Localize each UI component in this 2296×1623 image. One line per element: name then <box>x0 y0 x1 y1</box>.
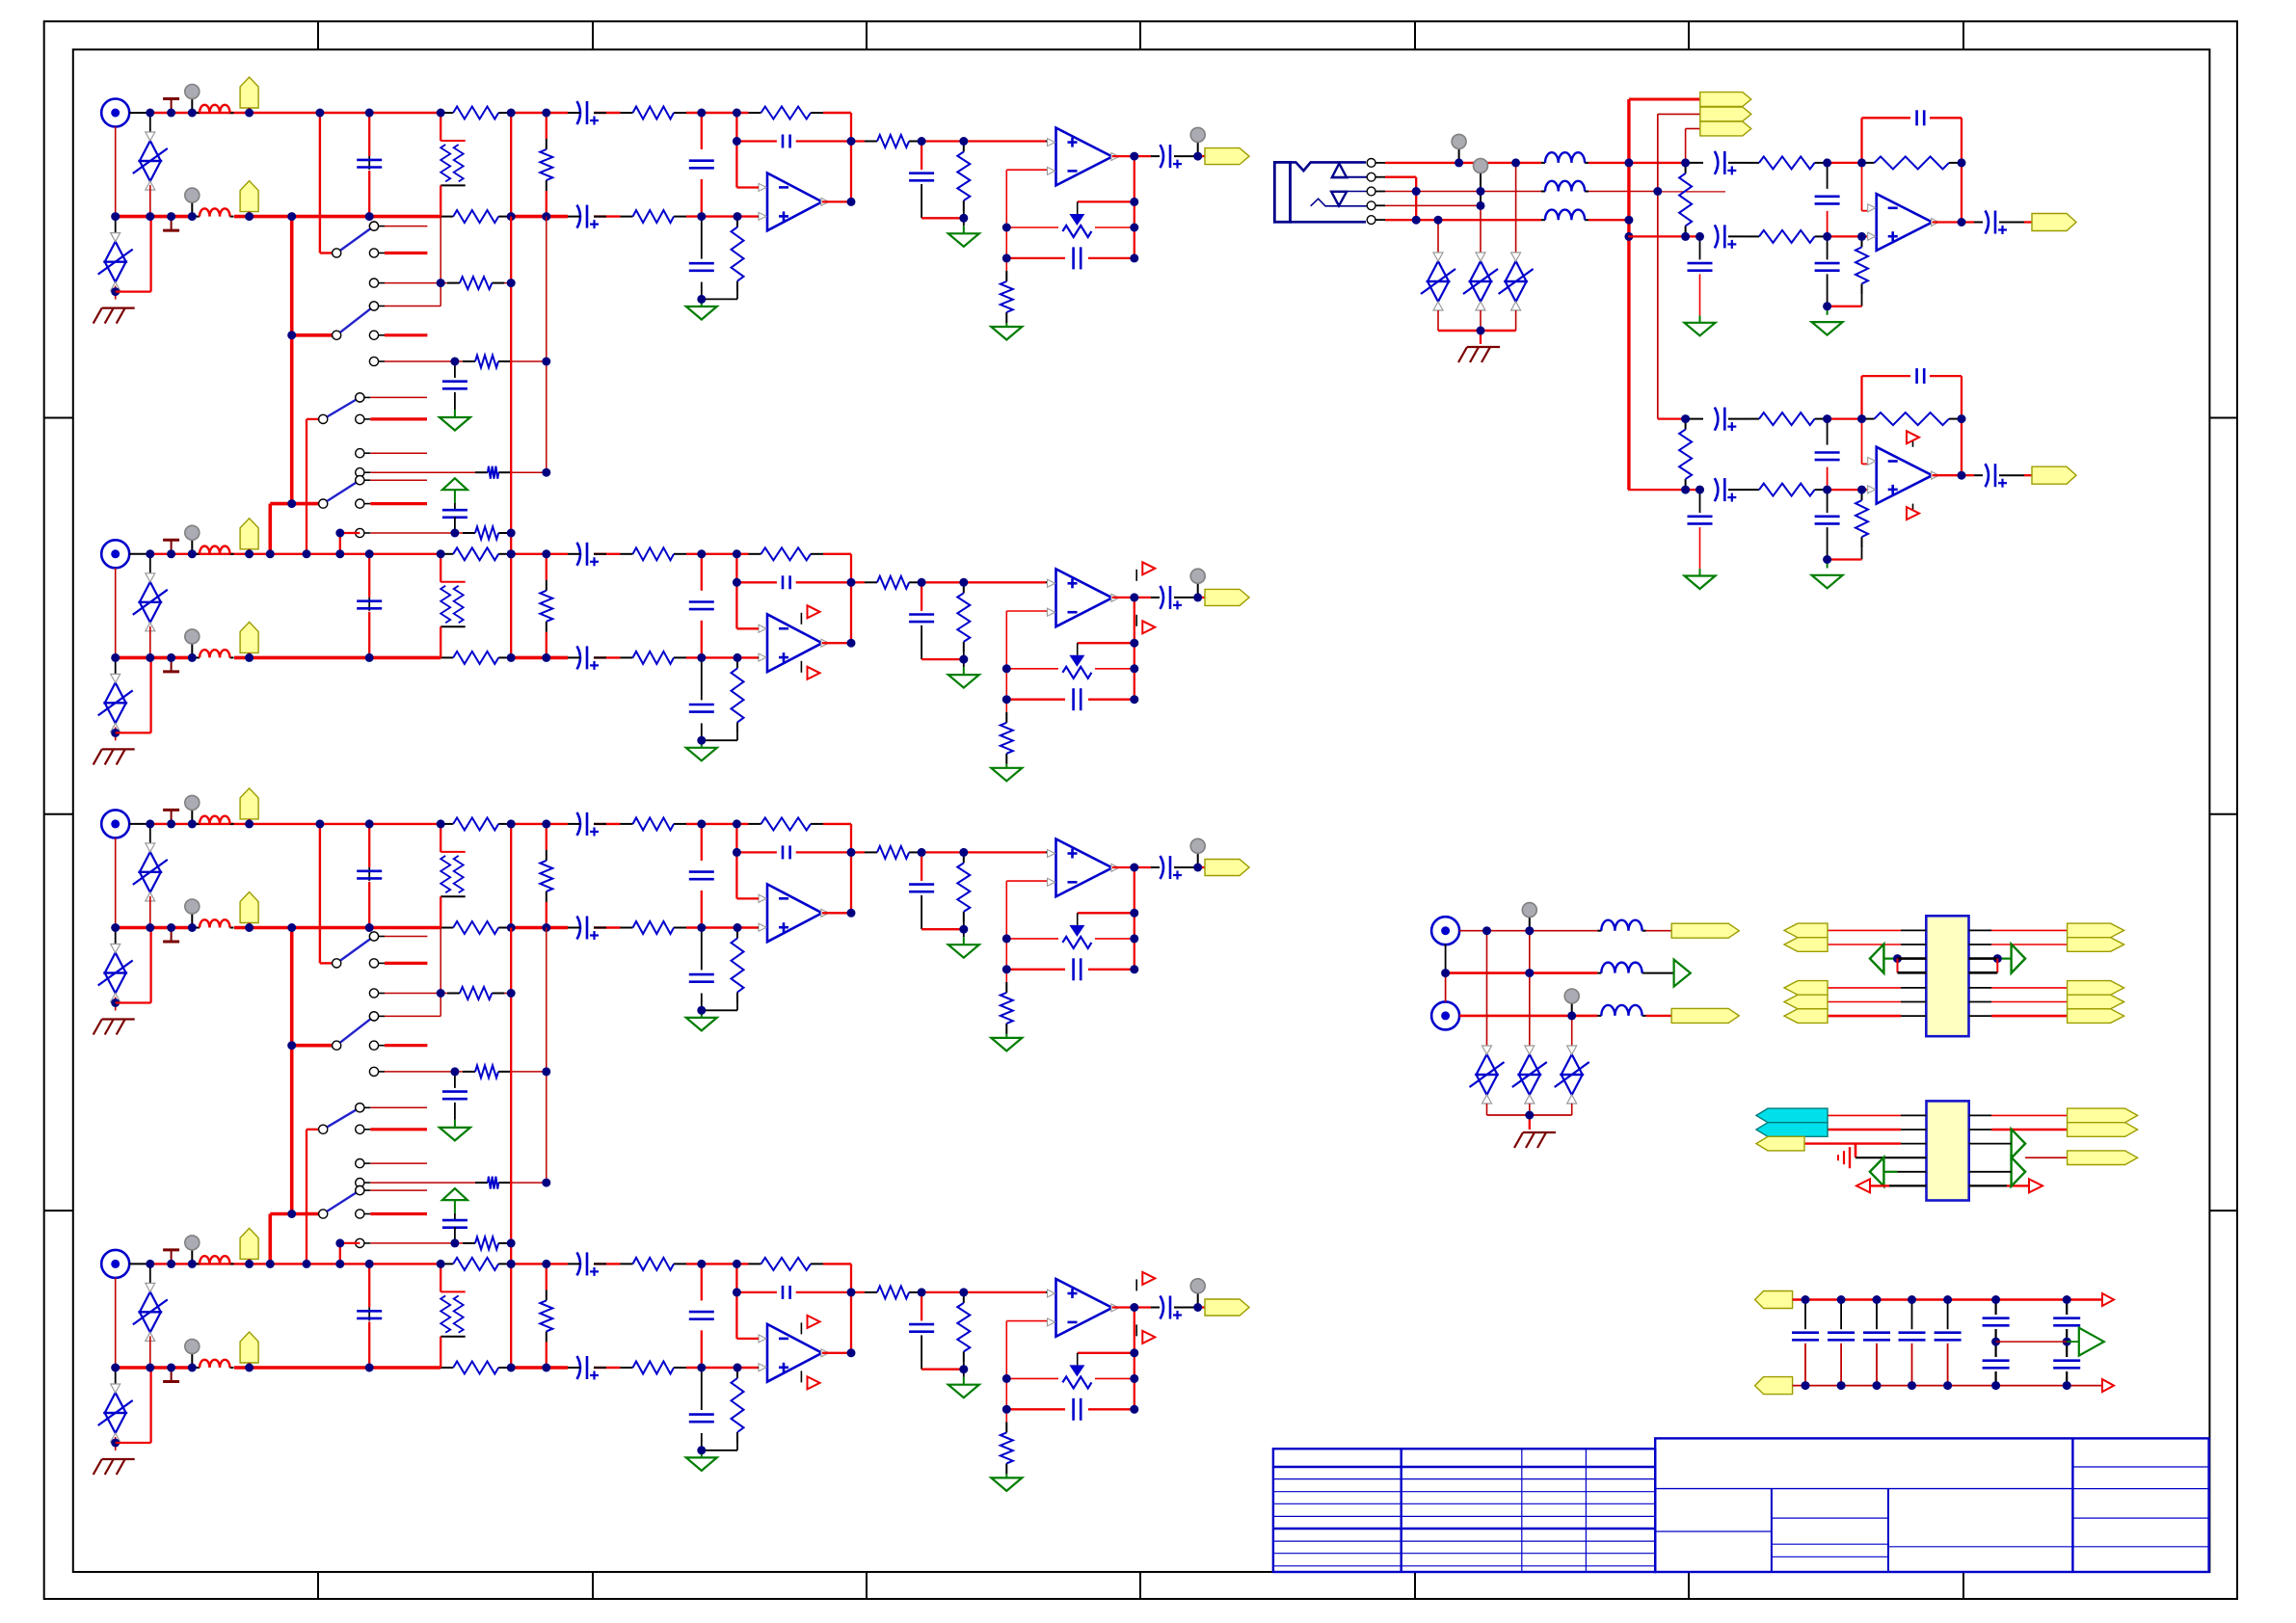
junction <box>733 1288 741 1296</box>
wire <box>1995 1329 1997 1357</box>
wire <box>454 1072 456 1088</box>
junction <box>1193 152 1202 161</box>
net flag FLAG4 <box>240 622 258 652</box>
junction <box>734 923 742 932</box>
tap TK5 <box>163 810 179 824</box>
wire <box>1151 866 1160 868</box>
wire <box>1078 912 1135 914</box>
net flag FLAG5 <box>240 788 258 819</box>
wire <box>116 1001 151 1003</box>
capacitor C3e <box>783 845 790 859</box>
test point TP8 <box>185 1340 200 1369</box>
wire pin1 row <box>1385 162 1541 164</box>
junction <box>847 578 856 587</box>
wire <box>440 1337 441 1368</box>
wire <box>757 927 760 929</box>
junction <box>245 1364 254 1372</box>
net flag <box>1756 1108 1828 1123</box>
capacitor C4d <box>689 1415 714 1423</box>
resistor R1j <box>957 142 970 212</box>
ground GND4a <box>686 1457 717 1471</box>
wire pin <box>1969 1143 2012 1145</box>
wire <box>1006 1320 1047 1322</box>
trigger diode D2c <box>1062 655 1091 678</box>
power pin arrow PA4 <box>1142 621 1155 633</box>
ground GND1b <box>948 233 979 247</box>
wire <box>851 851 865 853</box>
net flag video <box>1671 923 1739 938</box>
junction <box>287 499 296 508</box>
wire <box>1628 235 1703 237</box>
junction <box>1434 216 1443 225</box>
junction <box>1002 664 1011 673</box>
wire <box>568 1367 580 1369</box>
ground GND2b <box>948 675 979 688</box>
resistor pair R3e <box>441 852 466 896</box>
wire <box>149 1264 151 1288</box>
wire <box>1728 489 1747 491</box>
junction <box>697 736 706 745</box>
junction <box>733 137 741 146</box>
wire <box>701 1330 703 1368</box>
wire <box>1088 969 1135 971</box>
wire pin <box>1901 1015 1926 1017</box>
wire column <box>1134 598 1135 700</box>
junction <box>542 1364 550 1372</box>
junction <box>1837 1381 1846 1390</box>
wire column <box>440 928 441 1017</box>
chassis ground <box>93 1459 135 1475</box>
wire <box>2067 1341 2079 1343</box>
test point TP2 <box>185 188 200 217</box>
tap TK4 <box>163 657 179 672</box>
chassis ground <box>93 308 135 324</box>
wire top rail <box>511 553 568 555</box>
wire top rail <box>150 823 441 825</box>
wire <box>270 1212 318 1216</box>
wire top rail <box>129 823 150 825</box>
wire <box>447 532 463 534</box>
wire <box>921 658 964 660</box>
wire bottom rail <box>511 926 568 930</box>
wire <box>1198 155 1205 157</box>
junction <box>733 819 741 828</box>
net flag <box>2068 938 2124 952</box>
wire top rail <box>511 1263 568 1264</box>
junction <box>1002 965 1011 973</box>
junction <box>167 212 175 221</box>
capacitor C4f <box>909 1324 934 1332</box>
wire <box>454 1200 456 1213</box>
junction <box>1837 1295 1846 1304</box>
wire <box>568 553 580 555</box>
wire selector feed <box>290 928 294 1214</box>
wire <box>1997 957 2011 959</box>
junction <box>507 989 516 998</box>
capacitor C1i <box>357 160 382 168</box>
wire pin <box>1991 1001 2068 1003</box>
junction <box>437 109 445 118</box>
net flag headphone output <box>2032 466 2076 484</box>
junction <box>1130 695 1138 704</box>
resistor R3c <box>621 817 687 830</box>
polarized capacitor C4b <box>577 1356 600 1380</box>
wire <box>115 657 117 678</box>
junction <box>733 1260 741 1268</box>
power arrow bank1 <box>442 478 467 490</box>
resistor pair R2e <box>441 582 466 626</box>
wire output <box>822 912 851 914</box>
net flag <box>1784 1009 1828 1024</box>
wire pin <box>2025 1157 2068 1158</box>
wire <box>368 1264 370 1307</box>
junction <box>1958 414 1966 423</box>
wire <box>1529 931 1531 1046</box>
ground GND2 <box>440 1128 470 1141</box>
wire <box>2024 221 2032 223</box>
switch contact SWC1 <box>369 222 427 230</box>
wire <box>116 290 151 292</box>
trigger diode D3c <box>1062 925 1091 948</box>
wire <box>1930 375 1962 377</box>
wire pin <box>1969 987 1992 989</box>
wire output <box>822 1352 851 1354</box>
wire <box>149 657 151 732</box>
wire bus <box>1627 99 1630 490</box>
wire column <box>1134 1308 1135 1410</box>
wire top rail <box>823 553 851 555</box>
wire <box>800 1370 802 1382</box>
wire <box>1995 1371 1997 1386</box>
wire pin <box>1828 929 1901 931</box>
wire <box>1078 1352 1135 1354</box>
net flag FLAG1 <box>240 77 258 108</box>
wire flag stem <box>248 549 250 554</box>
net flag <box>1756 1136 1804 1151</box>
wire <box>568 823 580 825</box>
wire <box>504 993 511 995</box>
wire <box>796 581 851 583</box>
junction <box>1477 327 1485 335</box>
wire top rail <box>129 1263 150 1264</box>
wire <box>921 895 922 929</box>
junction <box>1857 232 1866 241</box>
wire <box>307 1129 319 1131</box>
wire pin <box>1804 1142 1855 1144</box>
junction <box>733 578 741 587</box>
test point TP1 <box>1190 127 1205 156</box>
wire column <box>1005 170 1007 271</box>
wire <box>115 998 117 1011</box>
capacitor C3f <box>909 885 934 892</box>
chassis ground <box>1458 347 1500 362</box>
wire <box>1046 141 1047 143</box>
wire <box>1861 419 1863 465</box>
switch contact SWC25 <box>356 1210 427 1218</box>
capacitor C4e <box>783 1286 790 1299</box>
junction <box>188 1364 197 1372</box>
capacitor C19 <box>1792 1333 1819 1341</box>
wire <box>1077 913 1079 925</box>
junction <box>1857 486 1866 494</box>
wire <box>1095 226 1135 228</box>
wire <box>1005 323 1007 327</box>
IC U11 <box>1927 1101 1969 1200</box>
switch contact SWC14 <box>369 932 427 941</box>
wire <box>149 896 151 928</box>
wire <box>1480 310 1482 331</box>
wire <box>1930 117 1962 119</box>
junction <box>542 653 550 662</box>
switch contact SWC7 <box>356 393 427 402</box>
wire pin <box>1898 1171 1927 1173</box>
net flag <box>1784 981 1828 996</box>
wire column <box>306 1130 307 1264</box>
wire top rail <box>594 112 621 114</box>
wire <box>736 897 759 899</box>
capacitor C1d <box>689 263 714 271</box>
switch contact SWC6 <box>369 357 447 365</box>
junction <box>697 295 706 304</box>
wire top rail <box>511 112 568 114</box>
switch SW1d <box>319 476 364 509</box>
ground GND3a <box>686 1018 717 1031</box>
wire <box>701 1368 703 1410</box>
TVS diode D2a <box>133 573 168 631</box>
wire column <box>510 217 512 283</box>
TVS diode D7 <box>1512 1046 1547 1104</box>
inductor L8 <box>1597 1005 1645 1016</box>
wire bottom rail <box>116 215 196 219</box>
junction <box>697 653 706 662</box>
wire <box>736 292 738 300</box>
wire <box>1151 155 1160 157</box>
wire <box>447 1242 463 1244</box>
wire <box>1005 1474 1007 1477</box>
wire <box>368 867 370 881</box>
polarized capacitor C1a <box>577 101 600 125</box>
resistor R1 <box>447 277 505 289</box>
resistor R4b <box>441 1362 511 1374</box>
test point TP6 <box>1522 903 1536 931</box>
resistor R4k <box>1001 1422 1013 1474</box>
junction <box>1002 1374 1011 1383</box>
junction <box>959 1288 968 1296</box>
wire <box>1445 973 1447 1002</box>
resistor R2i <box>865 576 921 589</box>
wire <box>149 626 151 658</box>
signal ground <box>1838 1147 1850 1168</box>
wire <box>1006 699 1065 701</box>
wire bottom rail <box>116 926 196 930</box>
wire <box>1862 117 1911 119</box>
resistor R4c <box>621 1258 687 1270</box>
wire <box>1589 219 1629 221</box>
junction <box>1958 158 1966 167</box>
wire column <box>268 1214 272 1264</box>
wire <box>1699 569 1701 575</box>
junction <box>1130 1303 1138 1312</box>
net arrow <box>1870 945 1884 973</box>
junction <box>365 923 374 932</box>
wire <box>1088 257 1135 259</box>
wire column <box>510 994 512 1243</box>
wire <box>1077 1353 1079 1366</box>
junction <box>365 1364 374 1372</box>
junction <box>542 1260 550 1268</box>
wire column <box>1005 881 1007 982</box>
junction <box>733 549 741 558</box>
wire top rail <box>594 823 621 825</box>
wire <box>1006 880 1047 882</box>
wire pin <box>1855 1157 1927 1158</box>
junction <box>1193 1303 1202 1312</box>
wire <box>1699 236 1701 259</box>
capacitor C3 <box>442 1092 467 1100</box>
wire pin <box>1991 987 2068 989</box>
junction <box>303 1260 311 1268</box>
wire <box>1828 306 1862 307</box>
wire <box>1646 1015 1672 1017</box>
ground GND4c <box>991 1477 1022 1491</box>
junction <box>734 653 742 662</box>
junction <box>542 549 550 558</box>
wire <box>368 612 370 658</box>
junction <box>542 923 550 932</box>
resistor R4i <box>865 1286 921 1298</box>
switch contact SWC9 <box>356 449 427 458</box>
junction <box>507 653 516 662</box>
wire <box>1658 113 1700 115</box>
wire <box>307 418 319 420</box>
wire flag stem <box>248 108 250 113</box>
wire <box>546 1264 547 1290</box>
wire <box>1515 163 1517 253</box>
wire <box>1828 558 1862 560</box>
wire <box>1947 1300 1949 1330</box>
wire <box>1897 959 1899 973</box>
wire column <box>440 217 441 306</box>
chassis ground <box>1514 1132 1556 1148</box>
wire pin2 row <box>1385 176 1416 178</box>
inductor L1a <box>196 105 234 113</box>
wire <box>270 502 318 506</box>
polarized capacitor C12 <box>1715 408 1737 432</box>
net flag <box>2068 1108 2138 1123</box>
wire <box>1658 191 1725 193</box>
capacitor C2i <box>357 601 382 609</box>
wire <box>921 1291 1046 1293</box>
capacitor C3i <box>357 871 382 879</box>
junction <box>245 653 254 662</box>
junction <box>303 549 311 558</box>
wire <box>736 627 759 629</box>
wire <box>1828 162 1862 164</box>
TVS diode D5a <box>1421 253 1455 310</box>
junction <box>188 819 197 828</box>
capacitor C2f <box>909 615 934 623</box>
resistor R2d <box>621 652 687 664</box>
wire video row1 <box>1459 930 1597 932</box>
wire top rail <box>594 1263 621 1264</box>
wire RCA barrel <box>115 127 117 217</box>
wire <box>1804 1300 1806 1330</box>
wire <box>1005 764 1007 768</box>
wire top rail <box>823 1263 851 1264</box>
junction <box>111 923 120 932</box>
wire <box>1912 504 1914 510</box>
junction <box>437 989 445 998</box>
wire <box>921 1369 964 1370</box>
wire <box>340 1242 360 1244</box>
wire video row2 <box>1446 971 1598 974</box>
wire top rail <box>594 553 621 555</box>
wire <box>921 1335 922 1369</box>
resistor R3h <box>749 817 824 830</box>
junction <box>1002 1405 1011 1414</box>
wire <box>701 217 703 259</box>
wire <box>546 902 547 928</box>
junction <box>1823 302 1831 310</box>
wire <box>1006 668 1058 670</box>
junction <box>245 923 254 932</box>
polarized capacitor C3h <box>1161 856 1183 880</box>
RCA connector J1 <box>101 99 129 127</box>
junction <box>1455 158 1463 167</box>
junction <box>365 212 374 221</box>
wire <box>921 142 922 171</box>
junction <box>2063 1295 2071 1304</box>
wire <box>196 823 200 825</box>
wire <box>921 1292 922 1321</box>
wire <box>701 621 703 658</box>
junction <box>697 212 706 221</box>
wire pin <box>1828 987 1901 989</box>
junction <box>365 109 374 118</box>
switch contact SWC5 <box>369 331 427 339</box>
wire bottom rail <box>686 215 758 217</box>
wire <box>1876 1344 1878 1386</box>
wire <box>1135 866 1151 868</box>
wire top rail <box>686 553 749 555</box>
switch contact SWC26 <box>356 1238 447 1247</box>
wire <box>1077 201 1079 214</box>
junction <box>1624 232 1633 241</box>
junction <box>1624 158 1633 167</box>
wire feedback <box>735 113 737 188</box>
wire selector feed <box>319 113 321 253</box>
switch contact SWC24 <box>356 1186 427 1195</box>
wire pin <box>1828 1015 1901 1018</box>
resistor R2g <box>732 657 744 732</box>
wire <box>1006 257 1065 259</box>
wire pin <box>1901 1129 1927 1131</box>
wire <box>1686 128 1700 130</box>
wire <box>800 661 802 673</box>
wire <box>149 217 151 292</box>
junction <box>697 819 706 828</box>
wire bottom rail <box>234 215 441 219</box>
tap TK7 <box>163 1250 179 1264</box>
capacitor C3c <box>689 872 714 880</box>
wire pin <box>1991 929 2068 931</box>
wire <box>1862 463 1868 465</box>
wire <box>440 1264 441 1291</box>
wire <box>963 922 965 937</box>
wire <box>702 739 737 741</box>
wire <box>851 140 865 142</box>
wire column <box>510 533 512 554</box>
